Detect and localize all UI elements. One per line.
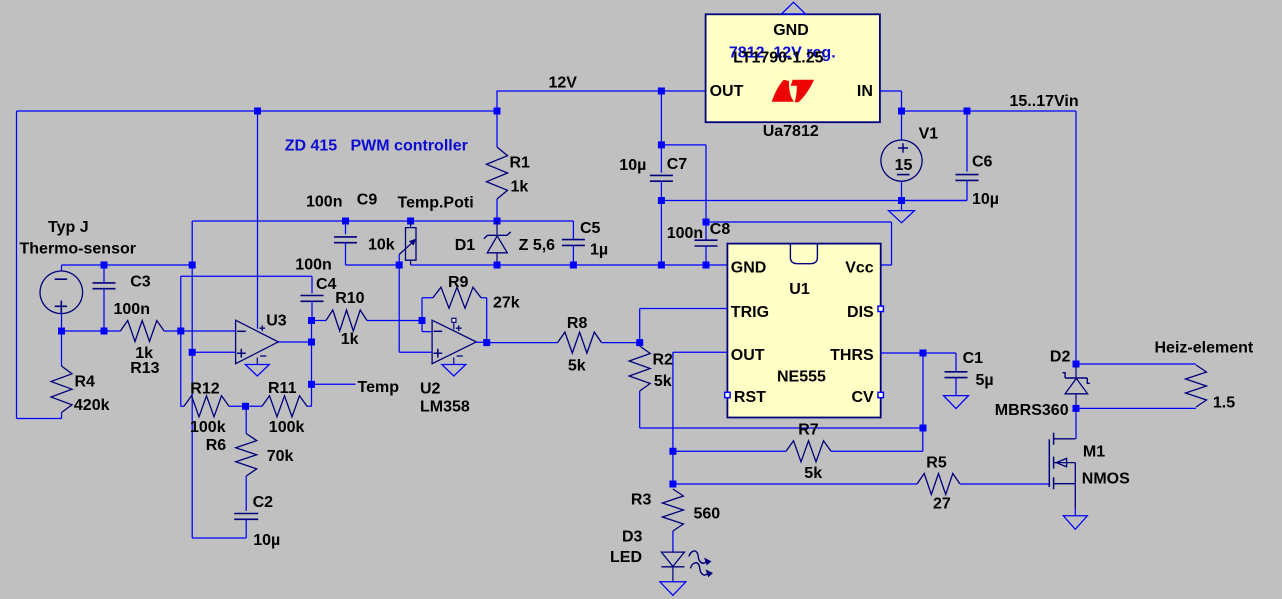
wire U3 V+ supply vertical x=257.5 xyxy=(257,111,259,329)
wire vertical B x=192.2 xyxy=(191,221,193,538)
wire 15..17Vin rail xyxy=(902,111,1077,363)
wire sensor net y=265 xyxy=(62,264,193,266)
node junction V1 gnd (901.5,200.5) xyxy=(898,197,905,204)
svg-text:27: 27 xyxy=(933,496,951,513)
capacitor C2 xyxy=(234,513,258,515)
node junction D2 bottom (1076,408.4) xyxy=(1073,405,1080,412)
node junction C4/R10 (312,320.5) xyxy=(308,317,315,324)
svg-text:R4: R4 xyxy=(75,373,96,390)
svg-text:R13: R13 xyxy=(130,360,159,377)
svg-text:R11: R11 xyxy=(268,380,297,397)
svg-text:Temp.Poti: Temp.Poti xyxy=(398,194,474,211)
op-amp U3 xyxy=(236,320,279,364)
svg-text:GND: GND xyxy=(773,22,809,39)
resistor R10 xyxy=(326,310,367,331)
wire IN pin to V1 node xyxy=(880,91,902,111)
svg-text:R8: R8 xyxy=(567,315,588,332)
capacitor C9 xyxy=(342,218,349,225)
wire C4 feed y=276.3 xyxy=(181,275,312,277)
svg-text:IN: IN xyxy=(857,83,873,100)
svg-text:5µ: 5µ xyxy=(976,372,994,389)
IC U1 NE555 box xyxy=(727,244,880,418)
capacitor C3 xyxy=(101,262,108,269)
LED arrows xyxy=(689,551,706,563)
svg-text:R1: R1 xyxy=(510,155,531,172)
capacitor C8 xyxy=(705,222,707,240)
ground flag M1 xyxy=(1063,516,1087,530)
svg-text:15: 15 xyxy=(895,157,913,174)
wire link to C8 top xyxy=(661,145,706,222)
logo LT red xyxy=(772,80,794,102)
svg-text:D2: D2 xyxy=(1050,349,1071,366)
resistor R7 xyxy=(673,450,786,452)
svg-text:Temp: Temp xyxy=(358,379,400,396)
wire left border vertical xyxy=(16,111,18,419)
diode D2 MBRS360 schottky xyxy=(1075,364,1077,378)
IC Ua7812 voltage regulator box xyxy=(706,14,880,122)
wire U3 non-inverting input xyxy=(192,351,235,353)
ground flag U2 xyxy=(442,365,466,377)
svg-text:R6: R6 xyxy=(206,437,227,454)
svg-text:1k: 1k xyxy=(341,331,359,348)
wire D2 to M1 drain xyxy=(1075,408,1077,439)
potentiometer wiper arrow xyxy=(399,242,413,255)
node junction C7 top rail (661.4,91) xyxy=(658,88,665,95)
capacitor C1 xyxy=(923,353,956,372)
node junction pot wiper (399.2,265) xyxy=(396,262,403,269)
resistor R13 xyxy=(62,330,121,332)
wire U3 inverting input xyxy=(181,330,236,332)
svg-text:15..17Vin: 15..17Vin xyxy=(1010,93,1079,110)
svg-text:TRIG: TRIG xyxy=(731,304,769,321)
resistor R9 xyxy=(422,298,433,321)
wire M1 source to ground xyxy=(1074,509,1076,516)
resistor R4 xyxy=(61,331,63,366)
resistor R3 xyxy=(662,489,683,531)
svg-text:CV: CV xyxy=(851,389,874,406)
pin marker CV xyxy=(878,392,883,397)
svg-text:C7: C7 xyxy=(667,156,688,173)
capacitor C6 xyxy=(964,108,971,115)
potentiometer Temp.Poti 10k xyxy=(407,218,414,225)
svg-text:C3: C3 xyxy=(130,274,151,291)
svg-text:D1: D1 xyxy=(455,237,476,254)
svg-text:27k: 27k xyxy=(493,295,520,312)
svg-text:THRS: THRS xyxy=(830,347,874,364)
svg-text:Vcc: Vcc xyxy=(845,260,874,277)
node junction (923,428) xyxy=(920,425,927,432)
svg-text:C9: C9 xyxy=(357,192,378,209)
svg-text:100n: 100n xyxy=(295,257,331,274)
resistor Heiz-element 1.5 xyxy=(1186,365,1207,407)
resistor R12 xyxy=(181,405,184,408)
node junction sensor bottom (61.5,331) xyxy=(58,328,65,335)
svg-text:Ua7812: Ua7812 xyxy=(763,123,819,140)
svg-text:OUT: OUT xyxy=(731,347,765,364)
svg-text:C8: C8 xyxy=(710,221,731,238)
svg-text:560: 560 xyxy=(694,506,721,523)
svg-text:1µ: 1µ xyxy=(590,242,608,259)
wire TRIG xyxy=(640,309,728,343)
node junction U3 minus input (180.8,331) xyxy=(177,328,184,335)
wire bottom-left to R4 xyxy=(17,413,62,419)
wire to U2 inverting input xyxy=(422,321,432,332)
svg-text:R5: R5 xyxy=(926,455,947,472)
capacitor C4 xyxy=(311,276,313,293)
svg-text:LM358: LM358 xyxy=(420,399,470,416)
notch xyxy=(790,244,817,264)
svg-text:5k: 5k xyxy=(654,373,672,390)
pin marker RST xyxy=(725,392,730,397)
wire U2 output xyxy=(476,341,486,343)
svg-text:C4: C4 xyxy=(316,276,337,293)
wire U3 output xyxy=(278,341,311,343)
pin marker DIS xyxy=(878,306,883,311)
svg-text:V1: V1 xyxy=(919,126,939,143)
resistor R8 xyxy=(487,342,558,344)
node junction (661.4,144.9) xyxy=(658,141,665,148)
resistor R11 xyxy=(262,396,307,417)
svg-text:Z 5,6: Z 5,6 xyxy=(519,237,556,254)
wire vertical A x=180.8 xyxy=(180,276,182,405)
node junction R12/R11/R6 (245.5,405.6) xyxy=(242,403,249,410)
voltage source thermo-sensor xyxy=(61,265,63,272)
svg-text:10µ: 10µ xyxy=(253,532,280,549)
svg-text:M1: M1 xyxy=(1083,443,1105,460)
capacitor C5 xyxy=(572,221,574,240)
svg-text:100k: 100k xyxy=(269,419,305,436)
svg-text:100n: 100n xyxy=(114,301,150,318)
svg-text:420k: 420k xyxy=(74,397,110,414)
svg-text:NMOS: NMOS xyxy=(1082,471,1130,488)
svg-text:R10: R10 xyxy=(335,290,364,307)
wire heiz top xyxy=(1076,363,1196,365)
wire 12V rail upper xyxy=(497,91,706,111)
wire THRS xyxy=(881,352,923,354)
svg-text:R2: R2 xyxy=(653,352,674,369)
node junction at (257.5,111) xyxy=(254,108,261,115)
resistor R1 xyxy=(496,111,498,147)
wire C7 column to ground rail xyxy=(660,201,662,266)
svg-text:10k: 10k xyxy=(368,237,395,254)
svg-text:LED: LED xyxy=(610,549,642,566)
svg-text:Typ J: Typ J xyxy=(48,219,89,236)
svg-text:R3: R3 xyxy=(631,492,652,509)
node junction U3 plus input (192.2,352.3) xyxy=(189,349,196,356)
svg-text:12V: 12V xyxy=(549,75,578,92)
wire top-left 12V rail y=111 xyxy=(17,110,498,112)
wire zener net y=221 xyxy=(192,220,573,222)
node junction R9/R10 (422,320.5) xyxy=(419,317,426,324)
wire vertical x=311.5 to Temp xyxy=(311,321,313,385)
wire U2 non-inverting feed xyxy=(399,265,432,352)
svg-text:U3: U3 xyxy=(266,313,287,330)
svg-text:1.5: 1.5 xyxy=(1213,395,1235,412)
ground flag C1 xyxy=(944,396,969,409)
LED D3 xyxy=(672,531,674,552)
svg-text:RST: RST xyxy=(734,389,766,406)
svg-text:U2: U2 xyxy=(420,381,441,398)
ground flag V1 xyxy=(901,201,903,211)
svg-text:LT1790-1.25: LT1790-1.25 xyxy=(733,50,824,67)
node junction R3/R5 (672.9,484) xyxy=(669,481,676,488)
svg-text:U1: U1 xyxy=(789,281,810,298)
svg-text:100n: 100n xyxy=(306,194,342,211)
svg-text:1k: 1k xyxy=(511,179,529,196)
svg-text:OUT: OUT xyxy=(710,83,744,100)
svg-text:DIS: DIS xyxy=(847,304,874,321)
svg-text:Thermo-sensor: Thermo-sensor xyxy=(20,241,136,258)
svg-text:10µ: 10µ xyxy=(972,191,999,208)
svg-text:5k: 5k xyxy=(804,465,822,482)
svg-text:100n: 100n xyxy=(667,225,703,242)
svg-text:Heiz-element: Heiz-element xyxy=(1155,340,1254,357)
wire heiz bottom xyxy=(1076,407,1196,409)
svg-text:GND: GND xyxy=(731,260,767,277)
node junction THRS (923,353) xyxy=(920,350,927,357)
node junction U3 out (311.5,342) xyxy=(308,339,315,346)
resistor R5 xyxy=(673,483,917,485)
svg-text:C5: C5 xyxy=(580,220,601,237)
svg-text:MBRS360: MBRS360 xyxy=(995,402,1069,419)
resistor R6 xyxy=(245,406,248,433)
node junction (901.5,111) xyxy=(898,108,905,115)
node junction Temp (311.5,385) xyxy=(308,381,315,388)
svg-text:10µ: 10µ xyxy=(619,157,646,174)
resistor R2 xyxy=(629,346,650,391)
svg-text:C1: C1 xyxy=(963,350,984,367)
svg-text:5k: 5k xyxy=(568,358,586,375)
transistor M1 NMOS xyxy=(1048,439,1050,487)
voltage source V1 15 xyxy=(901,111,903,140)
wire Vcc link xyxy=(706,222,892,265)
svg-text:R7: R7 xyxy=(798,422,819,439)
svg-text:NE555: NE555 xyxy=(777,369,826,386)
svg-text:D3: D3 xyxy=(622,528,643,545)
node junction C8 top (706,222) xyxy=(703,219,710,226)
ground flag D3 xyxy=(660,582,686,596)
svg-text:ZD 415 PWM controller: ZD 415 PWM controller xyxy=(285,138,468,155)
capacitor C7 xyxy=(660,145,662,173)
node junction R1 top (497,111) xyxy=(494,108,501,115)
node junction D2 top (1076,363) xyxy=(1073,361,1080,368)
svg-text:R9: R9 xyxy=(448,274,469,291)
node junction sensor line at vertical B xyxy=(189,262,196,269)
op-amp U2 LM358 xyxy=(432,320,476,364)
svg-text:70k: 70k xyxy=(267,448,294,465)
svg-text:C6: C6 xyxy=(972,153,993,170)
svg-text:100k: 100k xyxy=(190,419,226,436)
node junction C7 bottom (661.4,200.5) xyxy=(658,197,665,204)
wire OUT pin column xyxy=(673,352,728,484)
ground flag U3 xyxy=(245,365,269,377)
wire V1 ground line y=200.5 xyxy=(661,200,967,202)
svg-text:C2: C2 xyxy=(253,494,274,511)
ground pin arrow above box xyxy=(782,2,806,14)
wire ground rail y=265 right xyxy=(411,264,728,266)
wire mid rail C9 to pot-wiper node xyxy=(346,264,400,266)
node junction U2 out (486.7,342.6) xyxy=(483,339,490,346)
svg-text:R12: R12 xyxy=(190,380,219,397)
wire C7 branch xyxy=(660,91,662,145)
diode D1 zener Z 5,6 xyxy=(494,218,501,225)
wire Temp stub xyxy=(312,383,356,385)
wire C2 bottom link xyxy=(192,537,246,539)
node junction R8/R2/TRIG (639.7,342.6) xyxy=(636,339,643,346)
node junction R7 left (672.9,451.3) xyxy=(669,448,676,455)
